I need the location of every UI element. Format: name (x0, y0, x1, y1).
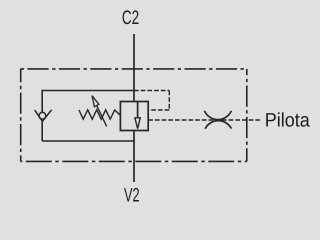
wire bypass branch left upper segment (41, 90, 43, 113)
wire V2 main line (bottom) (133, 131, 135, 183)
wire bypass branch top edge (42, 90, 134, 92)
envelope (dash-dot boundary box) (21, 69, 247, 161)
adjustment arrow across spring (92, 96, 107, 127)
flow arrow inside valve body (135, 102, 140, 129)
pilot sense line (dashed loop from C2 line to valve) (134, 91, 169, 111)
svg-text:C2: C2 (122, 7, 139, 29)
pilot line to Pilota port (dashed) (148, 119, 261, 121)
wire bypass branch left lower segment (41, 121, 43, 141)
counterbalance valve body (square) (120, 102, 148, 131)
svg-text:Pilota: Pilota (265, 110, 310, 132)
svg-text:V2: V2 (124, 184, 140, 205)
wire bypass branch bottom edge (42, 140, 135, 142)
wire C2 main line (top) (133, 34, 135, 102)
spring (adjustable) (79, 110, 120, 119)
check valve (ball and seat) (35, 110, 52, 122)
pilot restrictor (orifice) (204, 111, 231, 129)
